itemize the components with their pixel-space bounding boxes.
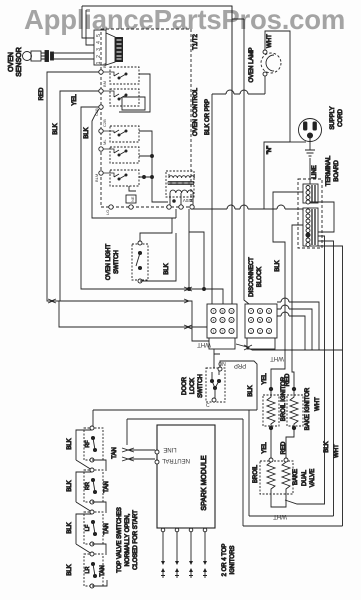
svg-text:9: 9 (268, 309, 270, 313)
svg-text:BLK: BLK (67, 522, 73, 533)
wire RED to valve (286, 428, 294, 458)
svg-text:BAKE IGNITOR: BAKE IGNITOR (305, 387, 311, 430)
svg-text:OVEN LAMP: OVEN LAMP (249, 47, 255, 82)
svg-text:LOCK: LOCK (190, 378, 196, 394)
wire WHT run right (236, 344, 343, 350)
svg-text:BROIL: BROIL (253, 464, 259, 483)
wire BLK left (59, 91, 207, 327)
svg-text:LR: LR (85, 566, 91, 573)
svg-text:IGNITORS: IGNITORS (230, 546, 236, 575)
svg-text:RF: RF (85, 440, 91, 448)
svg-text:6: 6 (231, 318, 233, 322)
svg-text:3: 3 (231, 329, 233, 333)
wire LR bottom (92, 580, 107, 586)
terminal strip upper (303, 184, 318, 203)
svg-text:RED: RED (39, 87, 45, 100)
svg-text:OVEN: OVEN (8, 52, 15, 72)
svg-text:1: 1 (213, 329, 215, 333)
svg-text:DUAL: DUAL (302, 469, 308, 486)
disconnect block right (245, 304, 277, 338)
wire RED (47, 72, 99, 301)
wire lamp feed (212, 90, 265, 94)
svg-text:5: 5 (222, 318, 224, 322)
svg-text:OVEN LIGHT: OVEN LIGHT (106, 243, 112, 280)
svg-text:BOARD: BOARD (334, 160, 340, 182)
disconnect block left (207, 304, 237, 338)
svg-text:BLOCK: BLOCK (257, 267, 263, 287)
svg-text:BLK: BLK (324, 441, 330, 452)
wire YEL (81, 107, 223, 304)
svg-text:NEUTRAL: NEUTRAL (161, 457, 190, 463)
ground (305, 141, 315, 156)
connector under left block (209, 338, 235, 349)
svg-text:LINE: LINE (312, 165, 318, 178)
wire sensor to connector (54, 53, 95, 59)
wire to valve switches (93, 410, 257, 419)
oven light switch (132, 244, 148, 280)
bake ignitor (287, 395, 303, 426)
svg-text:BROIL IGNITOR: BROIL IGNITOR (281, 376, 287, 421)
svg-text:WHT: WHT (334, 444, 340, 458)
connector black housing (115, 37, 123, 62)
svg-text:RED: RED (281, 441, 287, 454)
wire top feed from connector to right side (82, 6, 232, 304)
wire strip jumpers (310, 202, 334, 232)
valve switch RR (84, 470, 103, 502)
svg-text:SENSOR: SENSOR (16, 47, 23, 77)
svg-text:BAKE: BAKE (293, 469, 299, 485)
svg-text:ML: ML (102, 139, 107, 145)
relay K2 box (110, 89, 139, 106)
svg-text:TOP VALVE SWITCHES: TOP VALVE SWITCHES (117, 507, 123, 573)
svg-text:WHT: WHT (270, 355, 284, 361)
svg-text:"N": "N" (267, 146, 273, 155)
svg-text:BLK: BLK (53, 123, 59, 134)
svg-text:BA: BA (102, 62, 107, 68)
valve switch RF (84, 428, 103, 460)
svg-text:9: 9 (231, 309, 233, 313)
relay K3 box (110, 126, 139, 142)
svg-text:5: 5 (259, 318, 261, 322)
relay K5 box (110, 170, 139, 186)
svg-text:CORD: CORD (338, 109, 344, 127)
svg-text:BM: BM (102, 81, 107, 87)
svg-text:AppliancePartsPros.com: AppliancePartsPros.com (24, 4, 345, 35)
svg-text:4: 4 (250, 318, 252, 322)
spark module (157, 425, 215, 528)
wires inside light box right (189, 209, 204, 289)
svg-text:WHT: WHT (197, 341, 211, 347)
broil ignitor (263, 395, 279, 426)
svg-text:PRP: PRP (234, 362, 246, 368)
wire to door lock connector (59, 301, 209, 341)
svg-text:2: 2 (259, 329, 261, 333)
spark electrodes (161, 532, 207, 578)
relay wiring bus (119, 74, 152, 196)
svg-text:2: 2 (222, 329, 224, 333)
svg-text:SPARK MODULE: SPARK MODULE (201, 455, 208, 510)
svg-text:8: 8 (222, 309, 224, 313)
svg-text:LF: LF (85, 524, 91, 531)
wire oven control to terminal board (191, 205, 303, 211)
wire lamp top to right (265, 31, 290, 142)
svg-text:TAN: TAN (104, 481, 110, 493)
svg-text:BLK: BLK (275, 260, 281, 271)
svg-text:SWITCH: SWITCH (198, 374, 204, 398)
oven sensor probe (23, 52, 32, 61)
svg-text:SUPPLY: SUPPLY (330, 106, 336, 129)
svg-text:C2B: C2B (102, 119, 107, 127)
wire plug to terminal board (309, 158, 311, 184)
wire BLK 2 (92, 109, 172, 241)
oven lamp (261, 53, 281, 73)
svg-text:TAN: TAN (112, 447, 118, 459)
wire YEL to valve (270, 428, 272, 459)
dual valve (260, 461, 293, 494)
svg-text:VALVE: VALVE (310, 469, 316, 487)
valve switch LR (84, 554, 103, 586)
wire neutral N (264, 142, 290, 209)
svg-text:YEL: YEL (72, 94, 78, 106)
oven control bottom terminals (109, 205, 194, 209)
svg-text:T1/T2: T1/T2 (193, 34, 199, 50)
connector under right block (247, 338, 275, 349)
terminal strip lower (303, 208, 318, 246)
svg-text:C: C (206, 403, 210, 409)
supply cord plug (299, 119, 322, 142)
svg-text:3: 3 (268, 329, 270, 333)
svg-text:LO: LO (105, 210, 110, 215)
svg-text:CLOSED FOR START: CLOSED FOR START (133, 510, 139, 570)
svg-text:8: 8 (259, 309, 261, 313)
wire lamp bottom (264, 76, 266, 94)
svg-text:1: 1 (250, 329, 252, 333)
transformer T1 (166, 171, 194, 197)
svg-text:BLK OR PRP: BLK OR PRP (205, 99, 211, 135)
svg-text:LINE: LINE (163, 446, 176, 452)
svg-text:RR: RR (85, 482, 91, 490)
terminal board dashed box (298, 179, 322, 248)
svg-text:BLM: BLM (94, 174, 99, 182)
wire connector stubs (82, 6, 95, 45)
connector P1 pins 1-5 (94, 30, 106, 65)
svg-text:7: 7 (213, 309, 215, 313)
svg-text:BLK: BLK (67, 480, 73, 491)
svg-text:YEL: YEL (262, 373, 268, 385)
oven control dashed box (101, 29, 191, 207)
connector arrows to module (130, 450, 155, 459)
svg-text:DISCONNECT: DISCONNECT (249, 257, 255, 297)
junction dots ignitors (269, 387, 272, 390)
spark module outputs (161, 528, 165, 532)
block digits (213, 309, 271, 333)
relay contacts (103, 72, 127, 180)
svg-text:BLK: BLK (67, 564, 73, 575)
svg-text:NE: NE (130, 196, 135, 202)
wire door lock to blk down (220, 361, 257, 410)
svg-text:120V: 120V (183, 198, 194, 203)
svg-text:TERMINAL: TERMINAL (326, 155, 332, 186)
svg-text:BLK: BLK (84, 127, 90, 138)
svg-text:SWITCH: SWITCH (114, 250, 120, 274)
svg-text:WHT: WHT (267, 34, 273, 48)
bottom right rails (249, 515, 334, 517)
wire hooks right of block (277, 298, 319, 350)
svg-text:WHT: WHT (315, 397, 321, 411)
svg-text:7: 7 (250, 309, 252, 313)
door lock switch (206, 368, 225, 402)
svg-text:6: 6 (268, 318, 270, 322)
valve bottom U (271, 494, 286, 507)
long verticals center (231, 6, 233, 304)
svg-text:BLK: BLK (164, 263, 170, 274)
valve switch LF (84, 512, 103, 544)
svg-text:4: 4 (213, 318, 215, 322)
svg-text:OVEN CONTROL: OVEN CONTROL (193, 87, 199, 136)
junction dots below ignitors (269, 426, 272, 429)
relay K1 box (110, 67, 139, 84)
terminals on oven control left edge (99, 70, 103, 175)
svg-text:TAN: TAN (104, 523, 110, 535)
svg-text:NORMALLY OPEN,: NORMALLY OPEN, (125, 513, 131, 566)
svg-text:BLK: BLK (248, 385, 254, 396)
svg-text:BLK: BLK (67, 438, 73, 449)
svg-text:YEL: YEL (262, 442, 268, 454)
relay K4 box (110, 147, 139, 163)
svg-text:2 OR 4 TOP: 2 OR 4 TOP (222, 544, 228, 577)
svg-text:DOOR: DOOR (182, 376, 188, 395)
